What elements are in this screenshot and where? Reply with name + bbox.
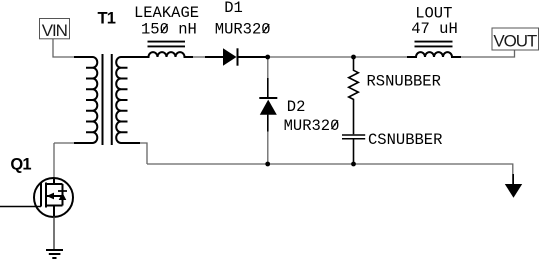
svg-text:CSNUBBER: CSNUBBER [368,131,442,149]
svg-text:D2: D2 [287,98,306,116]
svg-text:D1: D1 [224,0,243,17]
svg-text:Q1: Q1 [10,155,31,173]
svg-text:MUR320: MUR320 [215,21,271,39]
svg-text:47 uH: 47 uH [411,20,458,38]
svg-text:150 nH: 150 nH [141,21,197,39]
svg-text:RSNUBBER: RSNUBBER [367,72,441,90]
svg-text:T1: T1 [97,9,115,27]
svg-text:VIN: VIN [42,21,67,40]
svg-text:VOUT: VOUT [493,31,537,50]
svg-text:MUR320: MUR320 [284,117,340,135]
svg-text:LEAKAGE: LEAKAGE [134,4,199,22]
